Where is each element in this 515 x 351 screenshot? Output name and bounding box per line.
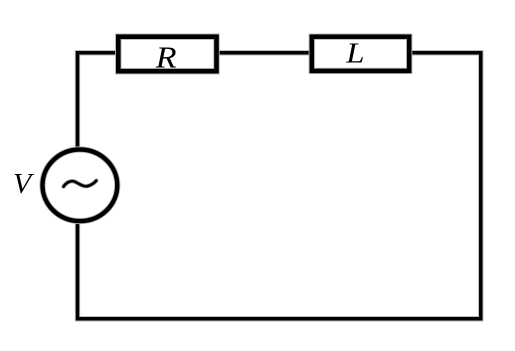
svg-text:V: V <box>13 168 34 200</box>
svg-text:R: R <box>155 41 177 75</box>
svg-text:L: L <box>345 36 364 69</box>
